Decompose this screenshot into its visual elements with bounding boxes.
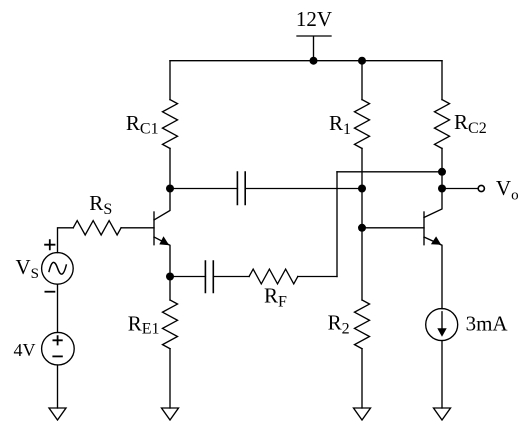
source 4V <box>42 332 75 365</box>
resistor RC2 <box>435 100 450 149</box>
resistor R1 <box>355 100 370 149</box>
wire Q1 base <box>121 227 154 229</box>
resistor R2 <box>355 300 370 349</box>
wire top rail <box>170 60 442 62</box>
wire Vo stub <box>442 188 478 190</box>
wire feedback top horizontal <box>337 171 442 173</box>
capacitor C2 <box>205 261 213 293</box>
12V supply symbol <box>297 36 331 61</box>
node dot Q1 emitter <box>166 273 174 281</box>
wire current source to ground <box>441 341 443 408</box>
wire emitter node to RE1 <box>169 277 171 301</box>
wire RS to source <box>58 228 74 253</box>
node dot Vo <box>438 185 446 193</box>
transistor Q2 <box>424 189 442 309</box>
resistor RE1 <box>163 300 178 349</box>
terminal Vo open circle <box>478 185 484 191</box>
wire RF to capacitor C2 <box>213 276 249 278</box>
wire RC2 branch top <box>441 61 443 100</box>
minus sign inside 4V <box>53 355 62 357</box>
node dot rail R1 <box>358 57 366 65</box>
wire capacitor C2 to emitter node <box>170 276 205 278</box>
minus sign VS <box>45 291 54 293</box>
wire Q2 base <box>362 227 424 229</box>
wire R1 to R2 <box>361 148 363 300</box>
plus sign inside 4V <box>53 336 61 344</box>
wire 4V to ground <box>57 365 59 408</box>
node dot 12V rail <box>310 57 318 65</box>
svg-text:4V: 4V <box>14 340 36 360</box>
node dot Q2 base <box>358 224 366 232</box>
capacitor C1 <box>237 172 245 205</box>
ground (R2) <box>354 408 371 420</box>
node dot feedback RC2 <box>438 168 446 176</box>
wire feedback to RF <box>298 276 337 278</box>
resistor RS <box>73 221 121 235</box>
wire feedback vertical <box>336 172 338 277</box>
ground (4V source) <box>49 408 66 420</box>
current source 3mA <box>426 309 458 341</box>
wire RC1 to collector node <box>169 148 171 188</box>
transistor Q1 <box>154 189 170 277</box>
wire capacitor C1 to node on R1 branch <box>245 188 362 190</box>
resistor RC1 <box>163 100 178 149</box>
node dot Q1 collector <box>166 185 174 193</box>
wire left branch top <box>169 61 171 100</box>
wire RE1 to ground <box>169 349 171 408</box>
ground (RE1) <box>162 408 179 420</box>
ground (current source) <box>434 408 451 420</box>
wire RC2 to Vo node <box>441 148 443 188</box>
node dot C1 / R1 branch <box>358 185 366 193</box>
svg-text:12V: 12V <box>296 7 332 31</box>
wire R1 branch top <box>361 61 363 100</box>
resistor RF <box>249 269 298 284</box>
plus sign VS <box>45 240 54 249</box>
source VS <box>42 253 74 285</box>
svg-text:3mA: 3mA <box>466 311 509 335</box>
wire R2 to ground <box>361 349 363 408</box>
wire VS to 4V <box>57 284 59 332</box>
wire collector node to capacitor C1 <box>170 188 237 190</box>
